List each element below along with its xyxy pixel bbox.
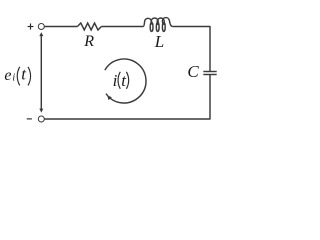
- svg-text:t: t: [21, 64, 27, 83]
- svg-text:L: L: [154, 32, 164, 51]
- svg-text:t: t: [121, 71, 127, 90]
- svg-text:R: R: [83, 33, 94, 50]
- svg-text:i: i: [12, 73, 15, 84]
- svg-text:i: i: [113, 71, 118, 90]
- svg-text:C: C: [187, 62, 199, 81]
- svg-text:e: e: [4, 67, 11, 84]
